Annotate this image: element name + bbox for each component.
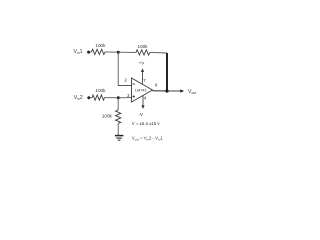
pin 4 arrowhead down — [141, 105, 144, 109]
wire node A down to pin 2 — [118, 52, 131, 85]
resistor R4 100k (vertical) — [116, 110, 121, 123]
wire node A to R2 — [118, 51, 136, 53]
pin 7 arrowhead up — [141, 68, 144, 72]
op-amp plus sign — [133, 95, 136, 98]
pin 7 supply line — [142, 71, 144, 85]
node Vin1 terminal — [87, 51, 90, 54]
svg-text:3: 3 — [127, 93, 130, 98]
wire node B to pin 3 — [118, 97, 131, 99]
wire Vin2 to R3 — [90, 97, 92, 99]
wire R2 to feedback corner — [150, 51, 167, 54]
op-amp U1 LM741 — [132, 78, 153, 102]
svg-text:6: 6 — [155, 82, 158, 87]
arrowhead Vout — [180, 89, 184, 92]
svg-text:7: 7 — [143, 78, 146, 83]
svg-text:Vin2: Vin2 — [74, 95, 83, 101]
junction node A — [117, 51, 120, 54]
node Vin2 terminal — [87, 96, 90, 99]
svg-text:100k: 100k — [102, 113, 113, 118]
svg-text:+V: +V — [139, 60, 145, 65]
resistor R3 100k — [92, 95, 104, 100]
op-amp minus sign — [133, 83, 136, 85]
wire node B down to R4 — [117, 98, 119, 110]
wire feedback vertical — [166, 53, 168, 91]
svg-text:Vout: Vout — [188, 89, 196, 95]
wire R3 to node B — [105, 97, 119, 99]
junction node B — [117, 96, 120, 99]
svg-text:100k: 100k — [138, 44, 149, 49]
junction node C — [165, 89, 168, 92]
svg-text:-V: -V — [139, 112, 143, 117]
svg-text:LM741: LM741 — [135, 87, 147, 92]
ground — [115, 136, 124, 141]
wire R4 to ground — [117, 124, 119, 136]
wire R1 to node A — [105, 51, 118, 53]
pin 4 supply line — [142, 95, 144, 106]
svg-text:Vout = Vin2 - Vin1: Vout = Vin2 - Vin1 — [132, 135, 164, 141]
svg-text:4: 4 — [144, 95, 147, 100]
wire Vin1 to R1 — [90, 51, 92, 53]
svg-text:2: 2 — [124, 77, 127, 82]
svg-text:100k: 100k — [95, 88, 106, 93]
svg-text:100k: 100k — [95, 43, 106, 48]
svg-text:V = ±5 a ±15 v: V = ±5 a ±15 v — [132, 121, 161, 126]
wire op-amp output to node C — [153, 90, 168, 92]
svg-text:Vin1: Vin1 — [74, 49, 83, 55]
wire node C to Vout — [167, 90, 182, 92]
resistor R1 100k — [92, 49, 105, 54]
resistor R2 100k — [136, 50, 150, 55]
